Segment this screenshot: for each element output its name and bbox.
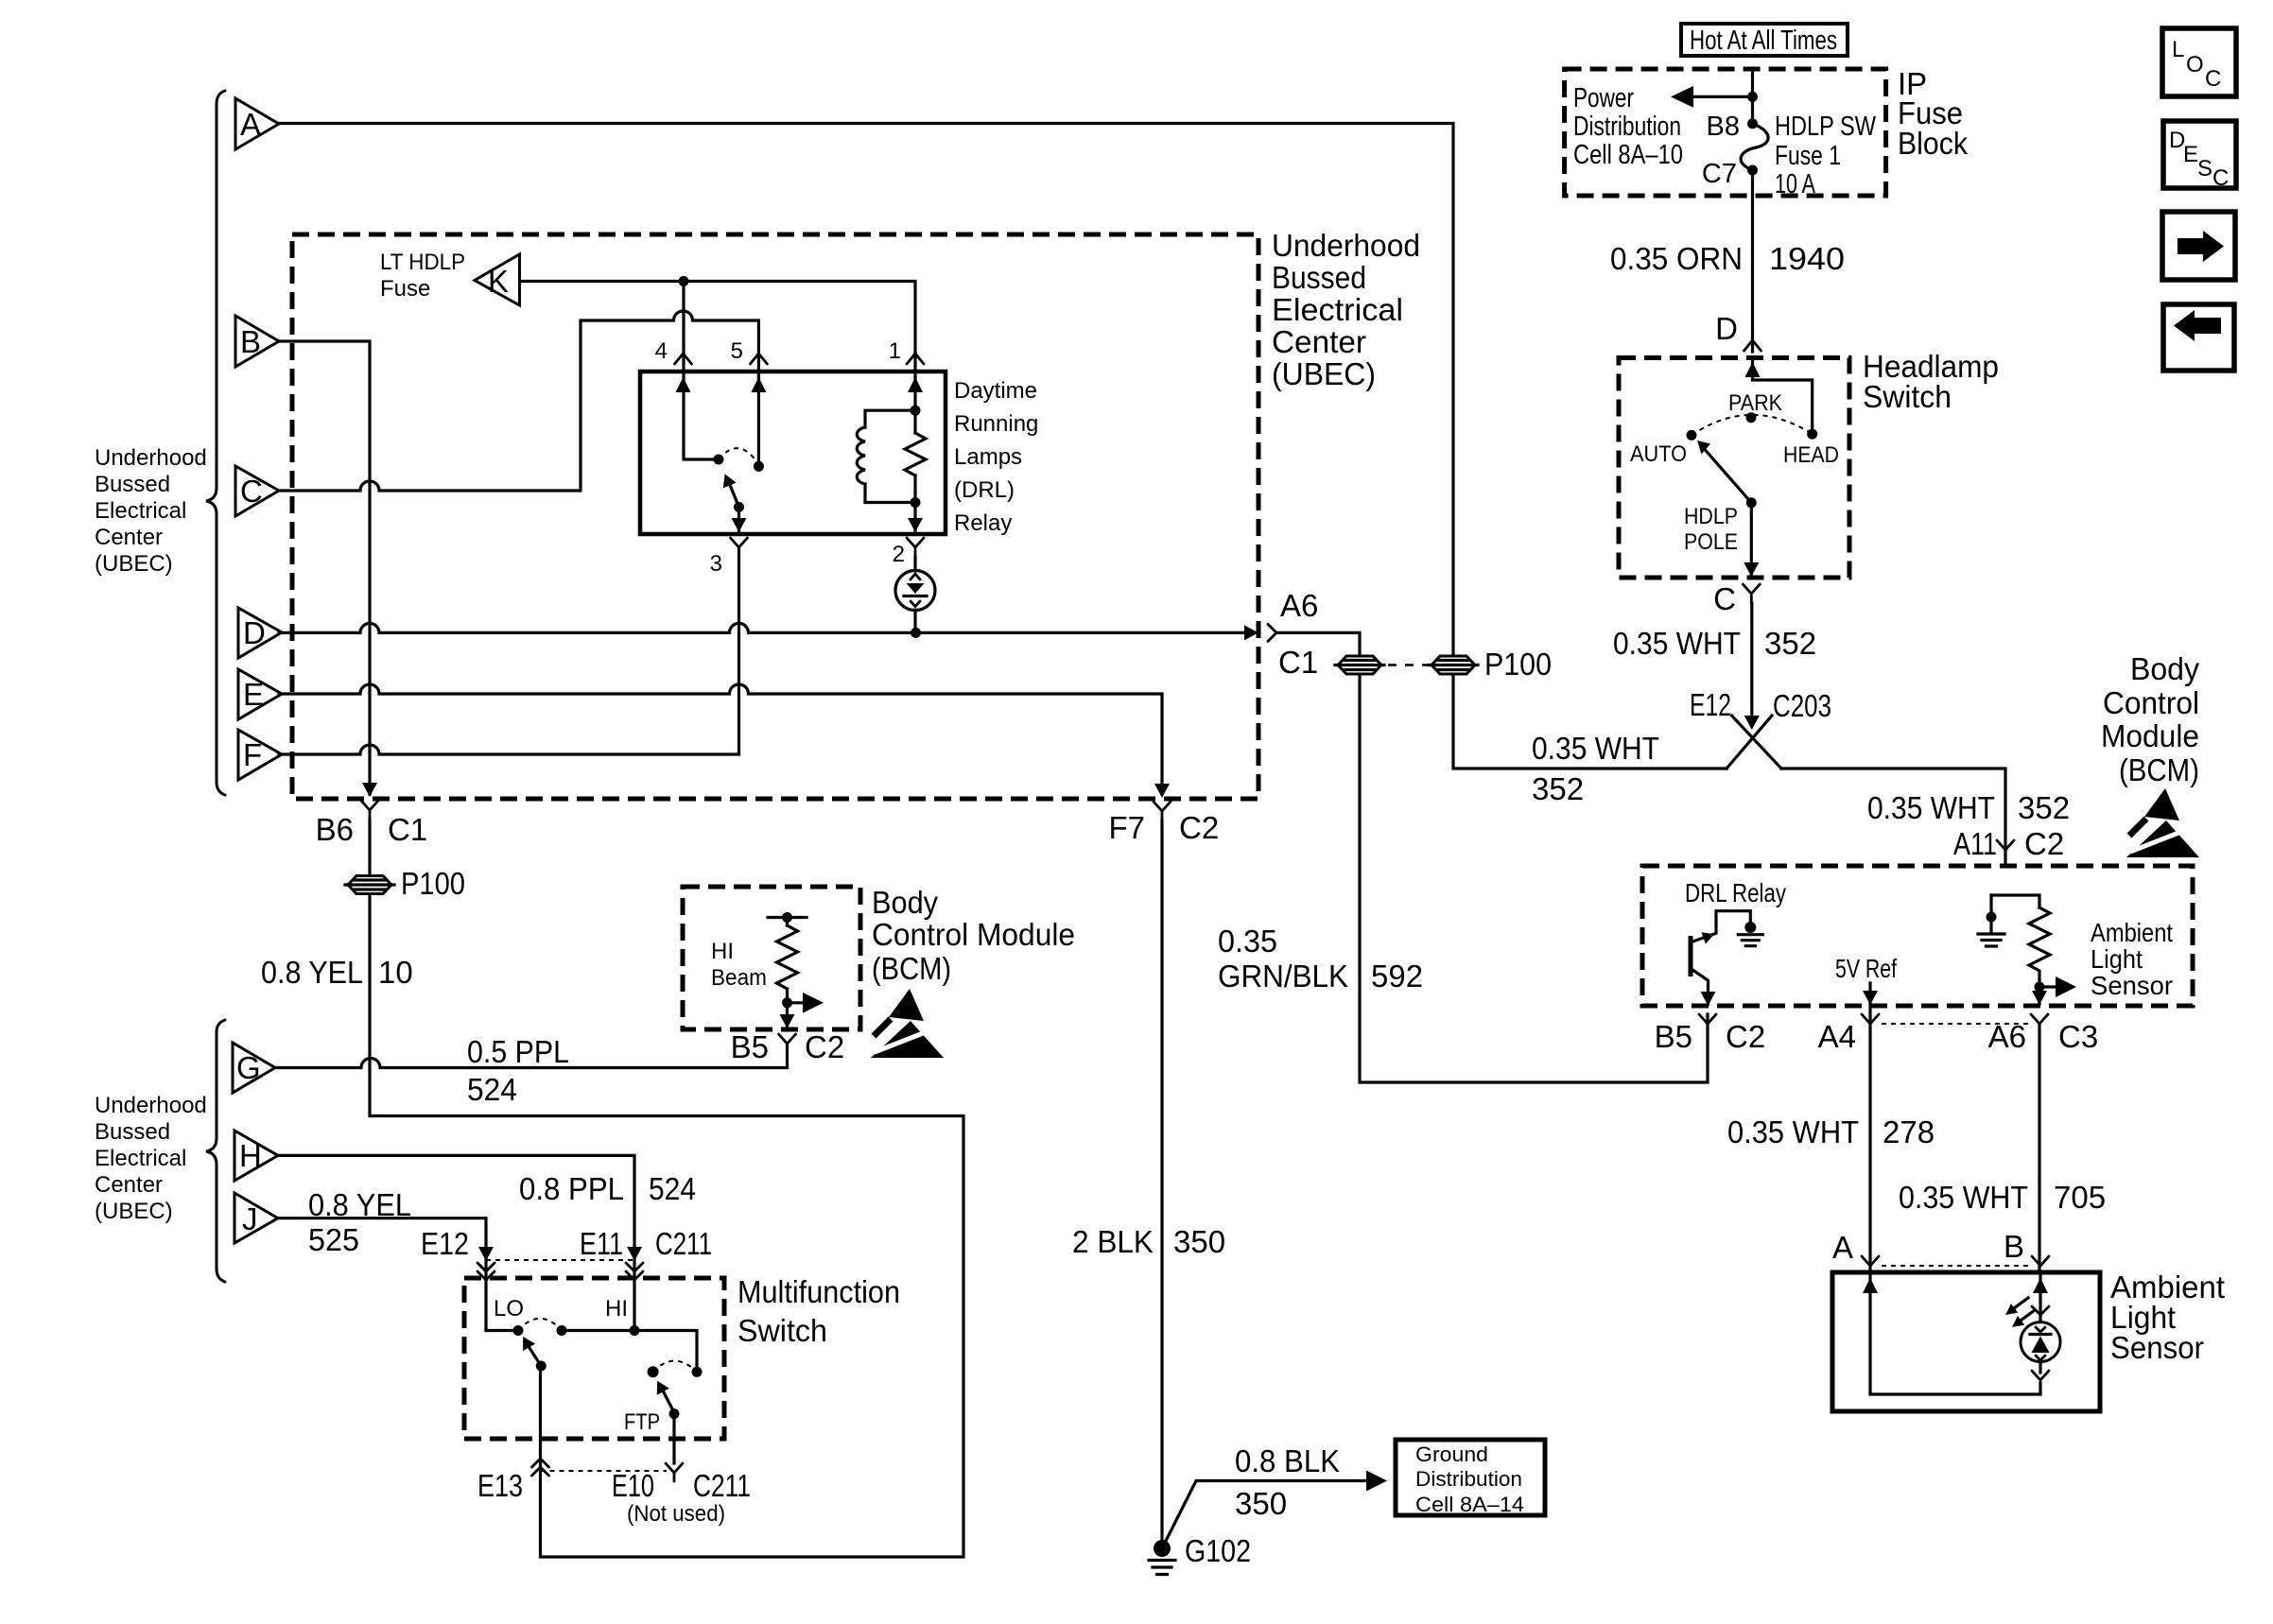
- svg-text:B5: B5: [1655, 1019, 1692, 1054]
- svg-text:Lamps: Lamps: [954, 444, 1022, 470]
- svg-text:E12: E12: [1690, 687, 1731, 722]
- svg-text:Switch: Switch: [1863, 379, 1952, 414]
- arrow A6 out: [2032, 991, 2047, 1005]
- arrow E12: [478, 1247, 494, 1261]
- arrow into pin 1: [908, 377, 923, 392]
- chevron E13 double: [532, 1459, 549, 1476]
- arrow into sensor pin A: [1863, 1278, 1878, 1293]
- svg-text:E: E: [2183, 142, 2198, 167]
- svg-text:C1: C1: [1278, 645, 1318, 680]
- svg-text:0.35 WHT: 0.35 WHT: [1727, 1114, 1859, 1149]
- B6 chevron below box: [361, 801, 378, 820]
- node: diode to D bus: [911, 628, 921, 638]
- Ground Distribution box: [1396, 1440, 1545, 1516]
- wire: triangle B to B6: [279, 341, 370, 794]
- svg-text:705: 705: [2054, 1180, 2106, 1215]
- svg-text:5V Ref: 5V Ref: [1835, 954, 1897, 983]
- svg-text:A: A: [1832, 1230, 1853, 1265]
- wire: triangle C to pin 5: [279, 311, 758, 491]
- wire: triangle E to F7: [279, 684, 1162, 793]
- svg-text:S: S: [2197, 156, 2212, 181]
- svg-text:PARK: PARK: [1728, 390, 1782, 416]
- left margin label: Underhood Bussed Electrical Center (UBEC) group 1: [95, 445, 207, 577]
- svg-text:C: C: [1713, 581, 1736, 616]
- svg-text:C: C: [240, 474, 263, 509]
- UBEC dashed box: [292, 234, 1258, 799]
- wire: 0.35 ORN 1940: [1751, 170, 1754, 352]
- svg-text:Body: Body: [2130, 651, 2199, 686]
- thin dashed connector strip A4-A6: [1882, 1023, 2028, 1025]
- node below resistor: [2035, 982, 2045, 993]
- svg-text:C2: C2: [2024, 826, 2064, 861]
- svg-text:C2: C2: [805, 1029, 844, 1064]
- arrow HI beam signal: [788, 1001, 809, 1004]
- svg-text:0.8 YEL: 0.8 YEL: [308, 1187, 411, 1222]
- wire pin B into photodiode: [2039, 1272, 2041, 1373]
- svg-text:0.8 YEL: 0.8 YEL: [261, 955, 363, 990]
- pin A chevron: [1862, 1256, 1879, 1266]
- relay switch dashed arc: [719, 448, 758, 464]
- wire FTP to E10: [672, 1414, 675, 1463]
- arrow to ambient light sensor signal: [2039, 985, 2061, 988]
- thin dashed connector strip A-B: [1882, 1265, 2029, 1267]
- brace for connector group A-F: [206, 91, 225, 795]
- svg-text:C1: C1: [388, 812, 427, 847]
- connector triangle J: [234, 1193, 278, 1243]
- dashed arc LO: [518, 1319, 562, 1331]
- pin C chevron: [1743, 584, 1760, 603]
- node below HI beam resistor: [782, 997, 792, 1008]
- svg-text:O: O: [2186, 52, 2204, 78]
- photodiode: [2021, 1322, 2060, 1362]
- pin 2 chevron below box: [907, 538, 924, 557]
- FTP left contact: [648, 1366, 659, 1377]
- ground in BCM (DRL relay): [1738, 922, 1762, 946]
- node FTP arm: [669, 1408, 680, 1419]
- node pin1/coil top: [911, 406, 921, 416]
- icon arrow left: [2163, 304, 2234, 371]
- svg-text:Block: Block: [1898, 126, 1968, 161]
- wire HI bus: [562, 1331, 697, 1373]
- node: fuse block junction: [1747, 92, 1758, 102]
- svg-text:Multifunction: Multifunction: [737, 1274, 900, 1309]
- connector triangle K: [475, 254, 520, 305]
- wire: triangle A feed across top: [279, 124, 1453, 655]
- arrow into pin 5: [751, 377, 766, 392]
- svg-text:P100: P100: [1484, 647, 1552, 682]
- svg-text:AUTO: AUTO: [1630, 441, 1687, 467]
- svg-text:E10: E10: [612, 1468, 654, 1503]
- label Ambient Light Sensor right: [2110, 1270, 2225, 1365]
- svg-text:0.35 WHT: 0.35 WHT: [1899, 1180, 2028, 1215]
- chevron below photodiode: [2032, 1371, 2049, 1380]
- svg-text:Bussed: Bussed: [95, 472, 170, 497]
- svg-text:F7: F7: [1108, 810, 1145, 845]
- svg-text:(UBEC): (UBEC): [95, 1199, 173, 1224]
- pin A6 chevron: [2031, 1014, 2048, 1024]
- svg-text:Center: Center: [1272, 324, 1366, 359]
- svg-text:(Not used): (Not used): [627, 1501, 725, 1527]
- svg-text:10 A: 10 A: [1775, 169, 1815, 199]
- svg-text:E12: E12: [421, 1226, 469, 1261]
- label: HDLP SW Fuse 1 10 A: [1775, 112, 1877, 199]
- svg-text:Distribution: Distribution: [1573, 112, 1681, 142]
- wire: A feed down to headlamp splice: [1453, 676, 1726, 769]
- wire: A6 exit to connector C1: [1276, 632, 1360, 654]
- wire J to E12: [278, 1218, 486, 1331]
- dashed connector link: [1388, 664, 1428, 666]
- headlamp switch dashed arc: [1692, 415, 1813, 436]
- connector triangle A: [235, 98, 279, 149]
- sensor internal loop wire: [1870, 1272, 2040, 1394]
- pin 3 chevron below box: [731, 538, 748, 557]
- svg-text:Electrical: Electrical: [95, 498, 186, 524]
- node pin 5 contact: [754, 461, 764, 472]
- svg-text:F: F: [243, 737, 262, 772]
- wire: triangle F to pin 3: [279, 745, 739, 754]
- svg-text:Control Module: Control Module: [872, 917, 1075, 952]
- icon DESC: [2163, 121, 2236, 191]
- svg-text:278: 278: [1883, 1114, 1935, 1149]
- svg-text:(BCM): (BCM): [872, 951, 951, 986]
- svg-text:HDLP SW: HDLP SW: [1775, 112, 1877, 142]
- icon arrow right: [2162, 212, 2235, 280]
- svg-text:B8: B8: [1707, 112, 1740, 142]
- label: Body Control Module (BCM) right: [2101, 651, 2199, 787]
- svg-text:G102: G102: [1185, 1533, 1251, 1568]
- diode on pin 2: [895, 557, 935, 632]
- IP fuse block dashed box: [1565, 69, 1886, 196]
- wire 0.8 YEL 10 and low beam loop: [370, 820, 963, 1557]
- node LO right contact: [557, 1325, 567, 1336]
- svg-text:0.35 WHT: 0.35 WHT: [1532, 731, 1659, 766]
- DRL relay box: [640, 371, 946, 534]
- connector P100 half (right): [1429, 656, 1478, 674]
- relay switch pivot node: [714, 455, 724, 465]
- pin chevron 4: [675, 354, 692, 364]
- svg-text:350: 350: [1173, 1224, 1225, 1259]
- connector P100 (B6 branch): [345, 876, 394, 894]
- svg-text:Relay: Relay: [954, 510, 1012, 536]
- arrow at C203: [1744, 716, 1760, 730]
- relay switch common node: [734, 502, 744, 512]
- svg-text:Distribution: Distribution: [1415, 1467, 1522, 1491]
- svg-text:525: 525: [308, 1222, 359, 1257]
- chevron E11 double: [626, 1263, 643, 1280]
- HI beam resistor: [768, 912, 807, 1028]
- left margin label: Underhood Bussed Electrical Center (UBEC) group 2: [95, 1093, 207, 1224]
- A6 exit chevron: [1268, 624, 1276, 641]
- svg-text:4: 4: [655, 338, 668, 364]
- pin chevron 1: [907, 354, 924, 364]
- label: Underhood Bussed Electrical Center (UBEC) right: [1272, 228, 1420, 391]
- svg-text:C203: C203: [1773, 688, 1831, 723]
- node C7: [1747, 165, 1758, 176]
- svg-text:0.35 WHT: 0.35 WHT: [1613, 626, 1741, 661]
- pin B chevron: [2032, 1256, 2049, 1266]
- svg-text:Body: Body: [872, 885, 938, 920]
- transistor Q DRL relay driver: [1691, 911, 1750, 1006]
- svg-text:LT HDLP: LT HDLP: [380, 250, 465, 275]
- svg-text:P100: P100: [401, 866, 465, 901]
- ground G102: [1149, 1540, 1175, 1575]
- label Hot At All Times box: [1681, 24, 1848, 56]
- svg-text:524: 524: [649, 1171, 696, 1206]
- svg-text:Bussed: Bussed: [95, 1119, 170, 1145]
- svg-text:1: 1: [889, 338, 901, 364]
- svg-text:0.8 BLK: 0.8 BLK: [1235, 1443, 1340, 1478]
- svg-text:(UBEC): (UBEC): [95, 551, 173, 577]
- ESD symbol HI beam BCM: [871, 989, 944, 1058]
- svg-text:Sensor: Sensor: [2110, 1330, 2204, 1365]
- arrow out of headlamp switch: [1744, 562, 1759, 577]
- node PARK: [1746, 412, 1757, 423]
- svg-text:592: 592: [1371, 959, 1423, 993]
- connector triangle D: [238, 608, 282, 658]
- splice X at C203: [1726, 716, 1781, 769]
- arrow to power distribution: [1671, 86, 1693, 108]
- wire G to HI beam input: [275, 1044, 788, 1068]
- svg-text:Control: Control: [2103, 685, 2199, 720]
- label: Daytime Running Lamps (DRL) Relay: [954, 378, 1038, 536]
- connector triangle G: [233, 1043, 275, 1093]
- svg-text:HEAD: HEAD: [1783, 442, 1839, 468]
- label: Headlamp Switch: [1863, 349, 1999, 414]
- wire: battery feed into fuse: [1751, 69, 1754, 124]
- wire 2 BLK 350 to G102: [1160, 821, 1163, 1548]
- svg-text:C3: C3: [2058, 1019, 2098, 1054]
- svg-text:C2: C2: [1726, 1019, 1765, 1054]
- svg-text:A4: A4: [1818, 1019, 1856, 1054]
- svg-text:HI: HI: [711, 939, 734, 964]
- node: K wire / pin 4 junction: [679, 276, 689, 286]
- pin A4 chevron: [1862, 1014, 1879, 1024]
- svg-text:Electrical: Electrical: [1272, 292, 1403, 327]
- svg-text:A6: A6: [1280, 588, 1318, 623]
- connector triangle E: [238, 669, 282, 719]
- wire E12 to LO contact: [486, 1329, 518, 1332]
- node coil bottom: [911, 497, 921, 508]
- svg-text:Hot At All Times: Hot At All Times: [1690, 26, 1837, 56]
- svg-text:2: 2: [893, 542, 905, 567]
- svg-text:C7: C7: [1702, 159, 1737, 189]
- svg-text:L: L: [2172, 37, 2184, 62]
- svg-text:352: 352: [1764, 626, 1816, 661]
- svg-text:Cell 8A–10: Cell 8A–10: [1573, 140, 1683, 170]
- wire: pin 3 inside relay: [737, 511, 740, 531]
- wire into headlamp switch: [1753, 358, 1813, 435]
- fuse HDLP SW Fuse 1: [1741, 124, 1768, 170]
- wire 5V Ref down: [1868, 983, 1871, 1272]
- F7 chevron below box: [1154, 802, 1171, 821]
- svg-text:C: C: [2212, 165, 2229, 191]
- svg-text:C: C: [2205, 66, 2221, 92]
- resistor ambient light sensor pull-up: [1991, 895, 2050, 1004]
- svg-text:B: B: [240, 324, 261, 359]
- chevron above photodiode: [2032, 1306, 2049, 1315]
- svg-text:Electrical: Electrical: [95, 1146, 186, 1171]
- wire: GRN/BLK 592 run to BCM B5: [1360, 676, 1708, 1082]
- pin A11 chevron: [1997, 840, 2014, 850]
- svg-text:B5: B5: [731, 1029, 769, 1064]
- connector triangle H: [234, 1131, 278, 1181]
- wire 0.35 WHT 352 down to C203: [1750, 603, 1753, 716]
- wire H to E11: [278, 1155, 634, 1330]
- node HDLP POLE: [1746, 497, 1757, 508]
- svg-text:LO: LO: [494, 1296, 524, 1322]
- svg-text:352: 352: [2018, 790, 2070, 825]
- arrow to ground distribution: [1366, 1471, 1387, 1492]
- node AUTO: [1687, 430, 1697, 441]
- wire: pin 4 vertical: [684, 282, 714, 460]
- label Multifunction Switch: [737, 1274, 900, 1348]
- svg-text:HI: HI: [605, 1296, 628, 1322]
- connector triangle F: [238, 730, 282, 780]
- thin dashed connector strip E12-E11: [486, 1259, 634, 1261]
- svg-text:E11: E11: [580, 1226, 623, 1261]
- svg-text:E: E: [243, 677, 264, 712]
- connector C1 half (left): [1335, 656, 1384, 674]
- svg-text:Fuse 1: Fuse 1: [1775, 141, 1841, 171]
- svg-text:D: D: [243, 615, 266, 650]
- label: IP Fuse Block: [1898, 66, 1968, 161]
- pin B5 chevron (HI beam): [779, 1034, 796, 1044]
- node HEAD: [1807, 429, 1817, 440]
- node B8: [1747, 118, 1758, 129]
- svg-text:2 BLK: 2 BLK: [1072, 1224, 1154, 1259]
- arrow into headlamp switch: [1745, 362, 1761, 377]
- svg-text:Daytime: Daytime: [954, 378, 1037, 404]
- svg-text:352: 352: [1532, 771, 1584, 806]
- Multifunction Switch dashed box: [464, 1278, 724, 1439]
- label Ambient Light Sensor in BCM: [2091, 918, 2173, 1000]
- svg-text:H: H: [239, 1138, 262, 1173]
- svg-text:Underhood: Underhood: [1272, 228, 1420, 263]
- svg-text:Cell 8A–14: Cell 8A–14: [1415, 1493, 1524, 1516]
- arrow B6 exit: [362, 783, 377, 797]
- svg-text:C211: C211: [693, 1468, 751, 1503]
- svg-text:Sensor: Sensor: [2091, 971, 2173, 1000]
- svg-text:FTP: FTP: [624, 1409, 660, 1435]
- relay resistor: [905, 433, 926, 503]
- svg-text:Center: Center: [95, 1172, 163, 1198]
- svg-text:Beam: Beam: [711, 965, 767, 991]
- svg-text:A: A: [240, 107, 261, 142]
- arrow E11: [627, 1247, 642, 1261]
- FTP switch arm: [664, 1392, 674, 1412]
- chevron E10: [666, 1463, 683, 1481]
- svg-text:(UBEC): (UBEC): [1272, 356, 1376, 391]
- node low beam arm: [536, 1361, 547, 1372]
- svg-text:524: 524: [467, 1072, 517, 1107]
- svg-text:1940: 1940: [1769, 241, 1845, 276]
- svg-text:Switch: Switch: [737, 1313, 827, 1348]
- svg-text:(DRL): (DRL): [954, 477, 1015, 503]
- svg-text:0.35 WHT: 0.35 WHT: [1867, 790, 1995, 825]
- svg-text:B6: B6: [316, 812, 354, 847]
- headlamp switch arm: [1702, 446, 1751, 503]
- svg-text:B: B: [2004, 1229, 2024, 1264]
- svg-text:G: G: [236, 1050, 261, 1085]
- pin B5 chevron: [1699, 1014, 1716, 1033]
- low beam switch arm: [529, 1348, 541, 1366]
- brace for connector group G-J: [206, 1020, 225, 1282]
- ESD symbol BCM: [2126, 788, 2199, 857]
- svg-text:0.35: 0.35: [1218, 924, 1277, 959]
- svg-text:C211: C211: [655, 1226, 712, 1261]
- svg-text:5: 5: [731, 338, 743, 364]
- light arrows: [2005, 1298, 2035, 1327]
- pin chevron 5: [750, 354, 767, 364]
- svg-text:DRL Relay: DRL Relay: [1685, 878, 1786, 907]
- wire 0.35 WHT 352 right branch to BCM A11: [1781, 769, 2005, 866]
- svg-text:0.5 PPL: 0.5 PPL: [467, 1034, 569, 1069]
- wire 0.8 BLK 350 branch: [1162, 1481, 1373, 1549]
- wire: power distribution branch: [1684, 95, 1753, 98]
- svg-text:D: D: [1715, 311, 1738, 346]
- svg-text:Module: Module: [2101, 718, 2199, 753]
- svg-text:Underhood: Underhood: [95, 1093, 207, 1118]
- dashed arc FTP: [653, 1361, 697, 1373]
- svg-text:A6: A6: [1988, 1019, 2026, 1054]
- connector triangle C: [235, 466, 279, 516]
- relay coil: [857, 410, 915, 502]
- icon LOC: [2162, 28, 2236, 96]
- FTP right contact: [692, 1367, 703, 1377]
- svg-text:K: K: [488, 264, 509, 299]
- svg-text:350: 350: [1235, 1486, 1287, 1521]
- Headlamp Switch dashed box: [1619, 358, 1849, 579]
- wire A6/C3 down to sensor: [2038, 1024, 2040, 1272]
- arrow A6 exit: [1244, 625, 1258, 640]
- svg-text:Ambient: Ambient: [2091, 918, 2173, 947]
- svg-text:A11: A11: [1953, 826, 1997, 861]
- thin dashed connector strip E13-E10: [541, 1470, 668, 1472]
- svg-text:POLE: POLE: [1684, 529, 1738, 555]
- Ambient Light Sensor box: [1832, 1272, 2100, 1411]
- chevron E12 double: [477, 1263, 495, 1280]
- svg-text:10: 10: [378, 955, 413, 990]
- wire HDLP POLE down: [1750, 503, 1753, 576]
- label Body Control Module (BCM) left: [872, 885, 1075, 986]
- HI Beam BCM dashed box: [683, 887, 860, 1029]
- arrow into pin 4: [676, 377, 691, 392]
- svg-text:C2: C2: [1179, 810, 1219, 845]
- Body Control Module dashed box: [1642, 866, 2193, 1006]
- svg-text:Fuse: Fuse: [380, 276, 430, 302]
- svg-text:Underhood: Underhood: [95, 445, 207, 471]
- ground in BCM (ambient sensor): [1978, 895, 2004, 946]
- svg-text:Ground: Ground: [1415, 1443, 1488, 1466]
- arrow B5 out of HI beam box: [780, 1014, 795, 1028]
- svg-text:E13: E13: [477, 1468, 523, 1503]
- arrow F7 exit: [1154, 784, 1170, 798]
- arrow into sensor pin B: [2033, 1278, 2048, 1293]
- svg-text:0.8 PPL: 0.8 PPL: [519, 1171, 624, 1206]
- svg-text:Running: Running: [954, 411, 1038, 437]
- svg-text:0.35 ORN: 0.35 ORN: [1610, 241, 1743, 276]
- svg-text:(BCM): (BCM): [2119, 752, 2199, 787]
- wire: pin 3 vertical below relay: [737, 549, 740, 754]
- arrow 5V Ref: [1863, 991, 1878, 1005]
- svg-text:Bussed: Bussed: [1272, 260, 1366, 295]
- svg-text:Center: Center: [95, 525, 163, 550]
- wire: triangle D bus to A6 exit: [279, 623, 1244, 632]
- svg-text:HDLP: HDLP: [1684, 504, 1738, 529]
- connector triangle B: [235, 316, 279, 367]
- node HI: [630, 1325, 640, 1336]
- relay switch arm: [730, 485, 739, 507]
